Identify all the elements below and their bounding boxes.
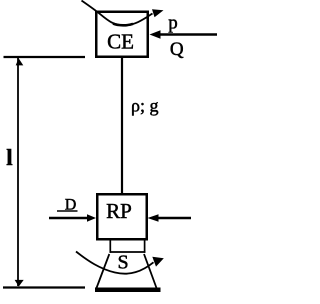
dimension arrowhead down <box>15 280 24 287</box>
dimension tick bottom <box>3 286 85 288</box>
thick low segment of arc <box>113 24 133 26</box>
arrowhead into RP right side <box>148 214 159 222</box>
arrowhead into RP left side <box>87 214 96 222</box>
underline of D <box>57 210 78 212</box>
wire: right inlet arrow line <box>157 217 191 219</box>
nozzle S left slant wall <box>97 254 110 288</box>
dimension arrowhead up <box>16 58 24 65</box>
svg-text:RP: RP <box>106 199 132 223</box>
block CE (upper vessel box) <box>96 12 148 57</box>
dimension line l vertical <box>17 58 19 286</box>
svg-text:p: p <box>168 13 178 34</box>
wire: arrow line D <box>49 217 89 219</box>
neck left wall <box>109 241 111 253</box>
neck bottom edge <box>110 251 146 253</box>
svg-text:l: l <box>6 145 12 170</box>
arrowhead of swirl curve <box>152 257 164 267</box>
svg-text:Q: Q <box>170 39 184 60</box>
nozzle base plate <box>95 288 161 293</box>
swirl flow curve through nozzle <box>76 252 154 274</box>
arrowhead into CE right side <box>150 30 161 39</box>
neck right wall <box>144 241 146 253</box>
dimension tick top <box>4 56 86 58</box>
wire: inlet arrow line p/Q <box>157 33 217 35</box>
svg-text:CE: CE <box>107 30 134 54</box>
block RP (lower vessel box) <box>97 194 147 239</box>
wire: pipe from CE to RP <box>121 57 123 194</box>
nozzle S right slant wall <box>144 254 157 288</box>
free-surface arc through CE <box>82 1 153 26</box>
svg-text:S: S <box>118 252 129 274</box>
svg-text:ρ; g: ρ; g <box>131 96 158 116</box>
arrowhead of arc <box>152 9 164 17</box>
